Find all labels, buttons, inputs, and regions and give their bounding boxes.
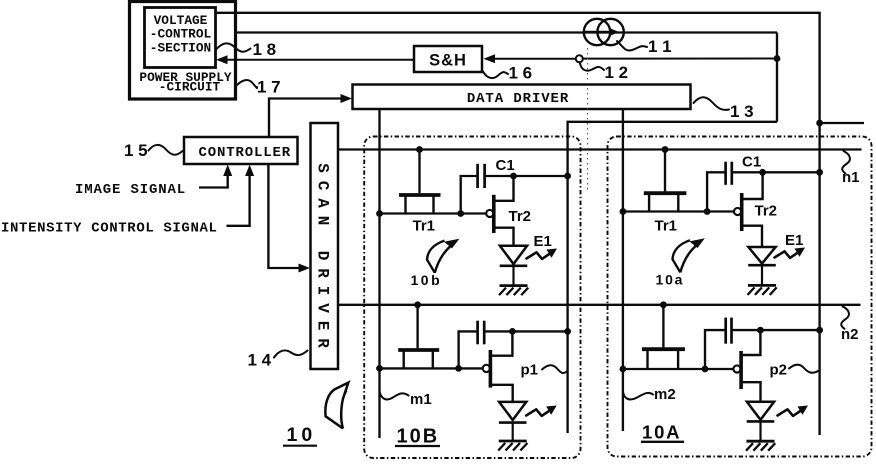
label INTENSITY CONTROL SIGNAL bbox=[1, 221, 218, 237]
svg-text:-SECTION: -SECTION bbox=[150, 40, 211, 55]
label C1 right bbox=[742, 154, 761, 171]
label S&H bbox=[429, 52, 467, 70]
wire branch to capacitor cap row2 left bbox=[459, 331, 478, 368]
ground bbox=[748, 285, 777, 295]
svg-text:m1: m1 bbox=[410, 391, 432, 408]
wire capacitor cap row2 right to power line bbox=[732, 329, 820, 331]
LED LED row2 right bbox=[747, 402, 775, 442]
transistor Tr1 row2 left bbox=[398, 350, 439, 368]
node storage branch bbox=[457, 210, 464, 217]
label 12 bbox=[580, 63, 628, 82]
voltage control section box 18 bbox=[145, 8, 216, 68]
label 15 bbox=[124, 141, 183, 160]
wire data line to Tr1 pixel 10b to Tr2 pixel 10b gate bbox=[380, 212, 487, 214]
label m2 bbox=[623, 386, 676, 403]
controller box 15 bbox=[184, 137, 298, 164]
node gate tap Tr1 pixel 10a bbox=[662, 146, 669, 153]
svg-text:n1: n1 bbox=[842, 169, 860, 186]
wire scan row line n2 bbox=[338, 304, 861, 306]
capacitor cap row2 left bbox=[478, 321, 485, 345]
wire data column m2 bbox=[622, 109, 624, 431]
label n2 bbox=[841, 306, 859, 343]
label 13 bbox=[694, 97, 754, 121]
wire controller to data driver bbox=[269, 94, 352, 137]
label Tr1 left bbox=[413, 218, 436, 235]
transistor Tr1 pixel 10b bbox=[399, 195, 441, 214]
block 10B border bbox=[364, 137, 580, 459]
svg-text:Tr1: Tr1 bbox=[655, 218, 678, 235]
svg-text:-CIRCUIT: -CIRCUIT bbox=[159, 80, 221, 95]
node storage branch bbox=[704, 208, 711, 215]
wire scan row line n1 bbox=[338, 148, 862, 150]
data driver box 13 bbox=[353, 85, 691, 110]
node gate tap Tr1 row2 right bbox=[660, 301, 667, 308]
node data column tap bbox=[620, 208, 627, 215]
svg-text:Tr2: Tr2 bbox=[509, 208, 532, 225]
wire power rail lower through current source bbox=[236, 31, 777, 33]
label POWER SUPPLY CIRCUIT bbox=[139, 70, 231, 94]
svg-text:DATA DRIVER: DATA DRIVER bbox=[467, 91, 569, 107]
LED LED row2 left bbox=[499, 402, 527, 441]
wire into S&H bbox=[484, 54, 576, 63]
svg-text:10B: 10B bbox=[397, 426, 440, 448]
node capacitor-drain junction bbox=[757, 327, 764, 334]
transistor Tr2 pixel 10a bbox=[734, 172, 763, 248]
svg-text:S&H: S&H bbox=[429, 52, 467, 70]
svg-text:Tr2: Tr2 bbox=[755, 203, 778, 220]
node data column tap bbox=[376, 365, 383, 372]
transistor Tr2 pixel 10b bbox=[486, 176, 513, 247]
label C1 left bbox=[496, 157, 515, 174]
wire data line to Tr1 row2 left to Tr2 row2 left gate bbox=[380, 367, 483, 369]
wire controller to scan driver bbox=[268, 164, 310, 273]
label Tr1 right bbox=[655, 218, 678, 235]
current source 11 bbox=[584, 19, 624, 45]
light emission arrow E1 pixel 10a bbox=[775, 248, 806, 258]
svg-text:p1: p1 bbox=[521, 362, 539, 379]
capacitor C1 pixel 10b bbox=[478, 164, 485, 188]
svg-text:E1: E1 bbox=[785, 232, 803, 249]
ground bbox=[498, 441, 527, 451]
label m1 bbox=[380, 391, 432, 408]
wire data line to Tr1 row2 right to Tr2 row2 right gate bbox=[623, 368, 733, 370]
node storage branch bbox=[455, 365, 462, 372]
transistor Tr1 row2 right bbox=[642, 349, 685, 369]
transistor Tr2 row2 left bbox=[483, 331, 513, 403]
wire capacitor cap row2 left to power line bbox=[484, 330, 567, 332]
wire row tap gate Tr1 pixel 10b bbox=[418, 150, 420, 194]
wire S&H output to voltage control section bbox=[216, 55, 414, 64]
label 11 bbox=[617, 37, 672, 56]
label 10A bbox=[641, 422, 684, 443]
wire intensity control signal input bbox=[227, 165, 255, 226]
op S&H box 16 bbox=[414, 46, 482, 72]
transistor Tr2 row2 right bbox=[733, 330, 760, 403]
svg-text:-CONTROL: -CONTROL bbox=[150, 26, 212, 41]
svg-text:1 8: 1 8 bbox=[253, 40, 277, 59]
label n1 bbox=[842, 151, 860, 186]
light emission arrow LED row2 right bbox=[778, 406, 809, 416]
svg-text:1 3: 1 3 bbox=[730, 102, 754, 121]
label 10a with arrow bbox=[656, 238, 705, 287]
svg-text:1 6: 1 6 bbox=[509, 64, 533, 83]
svg-text:Tr1: Tr1 bbox=[413, 218, 436, 235]
svg-text:10a: 10a bbox=[656, 272, 685, 288]
capacitor cap row2 right bbox=[726, 318, 732, 344]
label Tr2 right bbox=[755, 203, 778, 220]
svg-text:1 4: 1 4 bbox=[248, 351, 272, 370]
wire row tap gate Tr1 row2 right bbox=[662, 305, 664, 348]
node capacitor-drain junction bbox=[510, 173, 517, 180]
svg-text:INTENSITY CONTROL SIGNAL: INTENSITY CONTROL SIGNAL bbox=[1, 221, 218, 237]
svg-text:1 2: 1 2 bbox=[605, 63, 629, 82]
wire branch to capacitor cap row2 right bbox=[705, 330, 726, 369]
svg-text:CONTROLLER: CONTROLLER bbox=[198, 145, 291, 161]
label 10b with arrow bbox=[411, 239, 460, 288]
svg-text:10A: 10A bbox=[642, 422, 681, 443]
label SCAN DRIVER bbox=[314, 163, 332, 356]
node power column junction bbox=[816, 327, 823, 334]
block 10A border bbox=[608, 137, 872, 457]
ground bbox=[746, 441, 775, 451]
svg-text:1 1: 1 1 bbox=[648, 37, 672, 56]
switch 12 bbox=[576, 55, 583, 62]
node data column tap bbox=[376, 210, 383, 217]
label 17 bbox=[237, 78, 281, 97]
svg-text:C1: C1 bbox=[496, 157, 515, 174]
svg-text:E1: E1 bbox=[534, 233, 552, 250]
wire image signal input bbox=[199, 165, 232, 188]
svg-text:m2: m2 bbox=[654, 386, 676, 403]
light emission arrow E1 pixel 10b bbox=[527, 249, 558, 259]
label VOLTAGE CONTROL SECTION bbox=[150, 13, 212, 55]
svg-text:C1: C1 bbox=[742, 154, 761, 171]
label 18 bbox=[217, 40, 277, 59]
svg-text:1 7: 1 7 bbox=[257, 78, 281, 97]
node capacitor-drain junction bbox=[759, 169, 766, 176]
node data column tap bbox=[620, 366, 627, 373]
capacitor C1 pixel 10a bbox=[726, 162, 732, 185]
ground bbox=[499, 286, 528, 296]
wire power rail upper to p2 column bbox=[216, 13, 820, 123]
label 10 with arrow bbox=[283, 383, 348, 446]
svg-text:SCAN DRIVER: SCAN DRIVER bbox=[314, 163, 332, 356]
wire capacitor C1 pixel 10a to power line bbox=[732, 171, 820, 173]
light emission arrow LED row2 left bbox=[526, 406, 557, 416]
label Tr2 left bbox=[509, 208, 532, 225]
transistor Tr1 pixel 10a bbox=[644, 193, 687, 211]
LED E1 pixel 10b bbox=[500, 246, 528, 286]
wire p2 stub right bbox=[820, 122, 864, 124]
wire row tap gate Tr1 row2 left bbox=[416, 305, 418, 348]
wire data column m1 bbox=[378, 109, 380, 438]
node power column junction bbox=[816, 169, 823, 176]
node p2 rail junction bbox=[816, 120, 823, 127]
svg-text:p2: p2 bbox=[770, 362, 788, 379]
wire branch to capacitor C1 pixel 10b bbox=[461, 176, 478, 214]
svg-text:1 5: 1 5 bbox=[124, 141, 148, 160]
node power column junction bbox=[564, 173, 571, 180]
label IMAGE SIGNAL bbox=[75, 182, 186, 198]
label p1 bbox=[521, 362, 567, 379]
node power column junction bbox=[564, 328, 571, 335]
node storage branch bbox=[702, 366, 709, 373]
wire capacitor C1 pixel 10b to power line bbox=[485, 175, 568, 177]
LED E1 pixel 10a bbox=[748, 247, 776, 285]
label p2 bbox=[770, 362, 819, 379]
wire current source drop to switch line bbox=[776, 33, 778, 122]
wire data line to Tr1 pixel 10a to Tr2 pixel 10a gate bbox=[623, 210, 734, 212]
svg-text:10b: 10b bbox=[411, 272, 443, 288]
node gate tap Tr1 pixel 10b bbox=[416, 146, 423, 153]
wire p2 power column bbox=[818, 123, 820, 435]
label 14 bbox=[248, 350, 308, 369]
svg-text:n2: n2 bbox=[841, 326, 859, 343]
node gate tap Tr1 row2 left bbox=[414, 301, 421, 308]
label E1 left bbox=[534, 233, 552, 250]
node switch junction bbox=[774, 55, 781, 62]
node capacitor-drain junction bbox=[509, 328, 516, 335]
wire switch line to S&H bbox=[583, 58, 777, 60]
power supply circuit box 17 bbox=[130, 2, 236, 100]
wire power feed to p1 column bbox=[568, 122, 777, 433]
label E1 right bbox=[785, 232, 803, 249]
label 16 bbox=[483, 64, 532, 83]
label 10B bbox=[395, 426, 440, 448]
wire row tap gate Tr1 pixel 10a bbox=[664, 150, 666, 192]
svg-text:10: 10 bbox=[287, 424, 317, 446]
svg-text:IMAGE SIGNAL: IMAGE SIGNAL bbox=[75, 182, 186, 198]
label CONTROLLER bbox=[198, 145, 291, 161]
wire branch to capacitor C1 pixel 10a bbox=[707, 172, 726, 211]
scan driver box 14 bbox=[311, 123, 339, 369]
label DATA DRIVER bbox=[467, 91, 569, 107]
fold mark artifact line bbox=[587, 48, 589, 192]
